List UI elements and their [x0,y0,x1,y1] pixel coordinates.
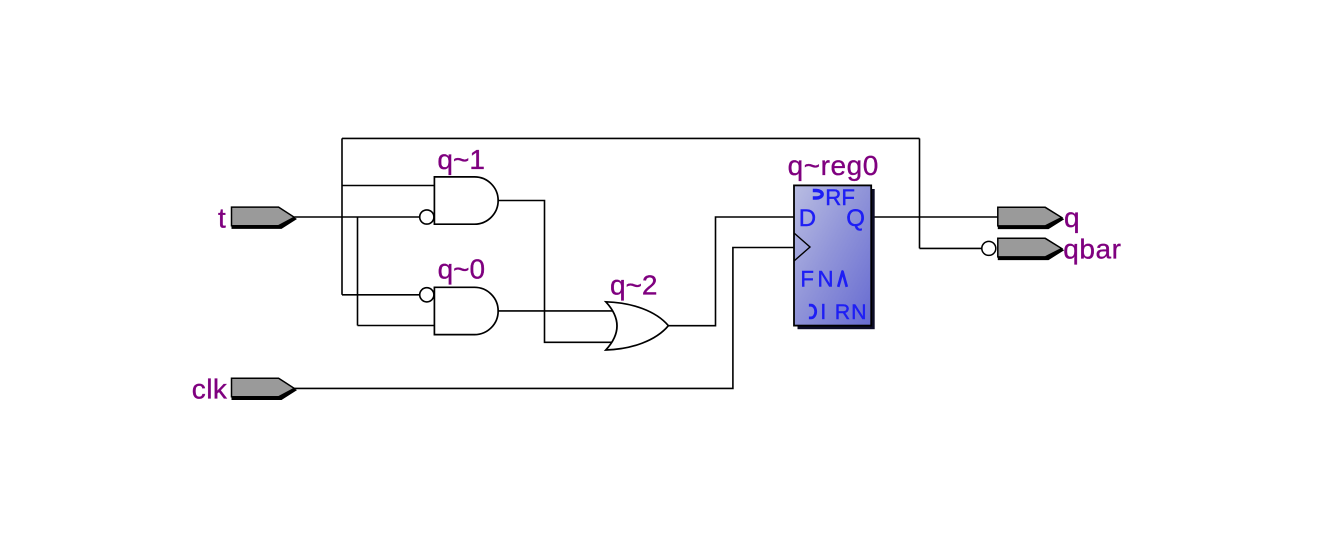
OR gate q~2 [606,302,669,350]
wire Q to qbar bubble [920,247,982,249]
input pin clk [232,378,295,397]
svg-text:q~reg0: q~reg0 [788,150,879,181]
svg-text:N: N [818,267,834,292]
output pin q [998,207,1062,226]
svg-text:F: F [800,267,814,292]
wire to q~0 bubble input [342,294,420,296]
wire q~1 output to q~2 lower input [498,201,612,343]
output pin qbar shadow [998,249,1064,261]
wire Q output to pin q [871,216,998,218]
wire t to q~1 bubble [294,216,420,218]
wire feedback top [342,137,920,139]
AND gate q~0 [434,287,498,334]
register q~reg0 shadow [798,189,875,329]
wire feedback right vertical [919,138,921,248]
svg-text:clk: clk [192,373,228,404]
output pin qbar [998,238,1062,257]
register clock triangle [794,233,810,261]
pin label CLRN bowl of C [809,305,816,318]
output pin q shadow [998,218,1064,230]
svg-text:qbar: qbar [1063,234,1121,265]
svg-text:q~2: q~2 [610,269,658,300]
wire clk to register clock [294,248,794,389]
svg-text:q: q [1064,202,1080,233]
input pin t shadow [232,217,298,229]
AND gate q~1 [434,177,498,224]
inverter bubble on q~0 upper input [420,288,434,302]
wire t branch vertical [357,217,359,326]
input pin clk shadow [232,388,298,400]
pin label ENA letter A (no crossbar) [838,272,847,287]
wire q~0 output to q~2 upper input [498,310,614,312]
wire t branch to q~0 lower input [358,325,435,327]
svg-text:R: R [835,300,850,324]
inverter bubble on q~1 lower input [420,210,434,224]
pin label CLRN stem of L [822,304,824,319]
svg-text:Q: Q [846,205,865,232]
input pin t [232,207,295,226]
svg-text:N: N [851,300,866,324]
svg-text:q~1: q~1 [437,144,485,175]
wire feedback left vertical [341,138,343,294]
wire to q~1 top input [342,185,434,187]
svg-text:q~0: q~0 [438,254,486,285]
pin label PRE (clipped bowl of P) [813,191,822,199]
inverter bubble on qbar [982,241,996,255]
svg-text:t: t [218,202,226,233]
svg-text:D: D [799,205,816,232]
register q~reg0 body [794,185,871,325]
wire q~2 output to D input [668,217,794,326]
